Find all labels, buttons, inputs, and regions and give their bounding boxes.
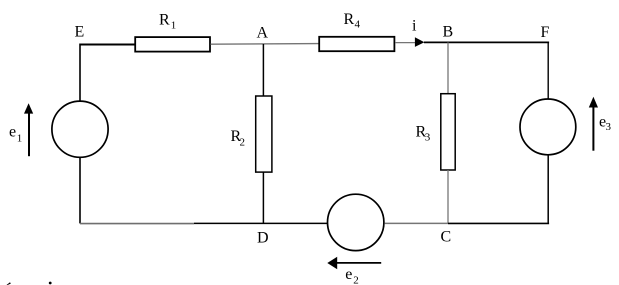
wire: e1 bottom to bottom-left corner — [79, 157, 81, 223]
wire top: E corner to R1 left — [80, 44, 136, 46]
svg-text:F: F — [541, 24, 550, 41]
wire: e3 bottom to bottom-right corner — [547, 155, 549, 224]
wire bottom: e2 right to node C — [385, 222, 449, 224]
svg-text:1: 1 — [171, 20, 177, 32]
wire top: R1 right to R4 left — [211, 43, 320, 46]
source e3 circle — [520, 99, 576, 155]
svg-text:R: R — [344, 11, 355, 28]
svg-text:B: B — [443, 24, 454, 41]
svg-text:4: 4 — [355, 19, 361, 31]
resistor R3 — [441, 94, 455, 170]
wire: A vertical down to R2 — [262, 44, 264, 97]
svg-text:A: A — [257, 25, 269, 42]
svg-text:e: e — [9, 124, 16, 141]
wire bottom: left corner to mid (light segment) — [80, 223, 194, 225]
arrow e1 — [28, 112, 30, 156]
svg-text:C: C — [441, 229, 452, 246]
wire bottom: node C to right corner — [448, 222, 549, 224]
svg-text:1: 1 — [17, 133, 23, 145]
svg-text:D: D — [257, 229, 269, 246]
svg-text:R: R — [159, 12, 170, 29]
current arrow i — [415, 37, 425, 47]
arrow e2 — [337, 262, 382, 264]
wire top: arrow to F corner — [424, 41, 549, 43]
stray caption mark (accent) bottom-left — [7, 282, 11, 285]
source e2 circle — [328, 194, 384, 250]
resistor R1 — [135, 37, 210, 52]
wire: F vertical down to source e3 — [547, 42, 549, 99]
wire: E vertical down to source e1 — [79, 44, 81, 102]
svg-text:e: e — [345, 266, 352, 283]
svg-text:3: 3 — [606, 121, 612, 133]
wire top: R4 right to current arrow — [395, 42, 415, 44]
wire: R2 bottom to node D — [262, 172, 264, 223]
wire: R3 bottom to node C — [447, 170, 449, 223]
wire bottom: mid to source e2 left — [194, 222, 327, 224]
resistor R4 — [319, 37, 394, 51]
resistor R2 — [256, 96, 272, 172]
svg-text:2: 2 — [353, 274, 359, 285]
wire: B vertical down to R3 — [447, 42, 449, 94]
arrow e3 — [592, 106, 594, 151]
stray caption mark (dot) — [49, 282, 52, 285]
svg-text:i: i — [412, 17, 417, 34]
source e1 circle — [52, 101, 108, 157]
svg-text:3: 3 — [425, 132, 431, 144]
svg-text:E: E — [75, 24, 85, 41]
svg-text:2: 2 — [240, 137, 246, 149]
